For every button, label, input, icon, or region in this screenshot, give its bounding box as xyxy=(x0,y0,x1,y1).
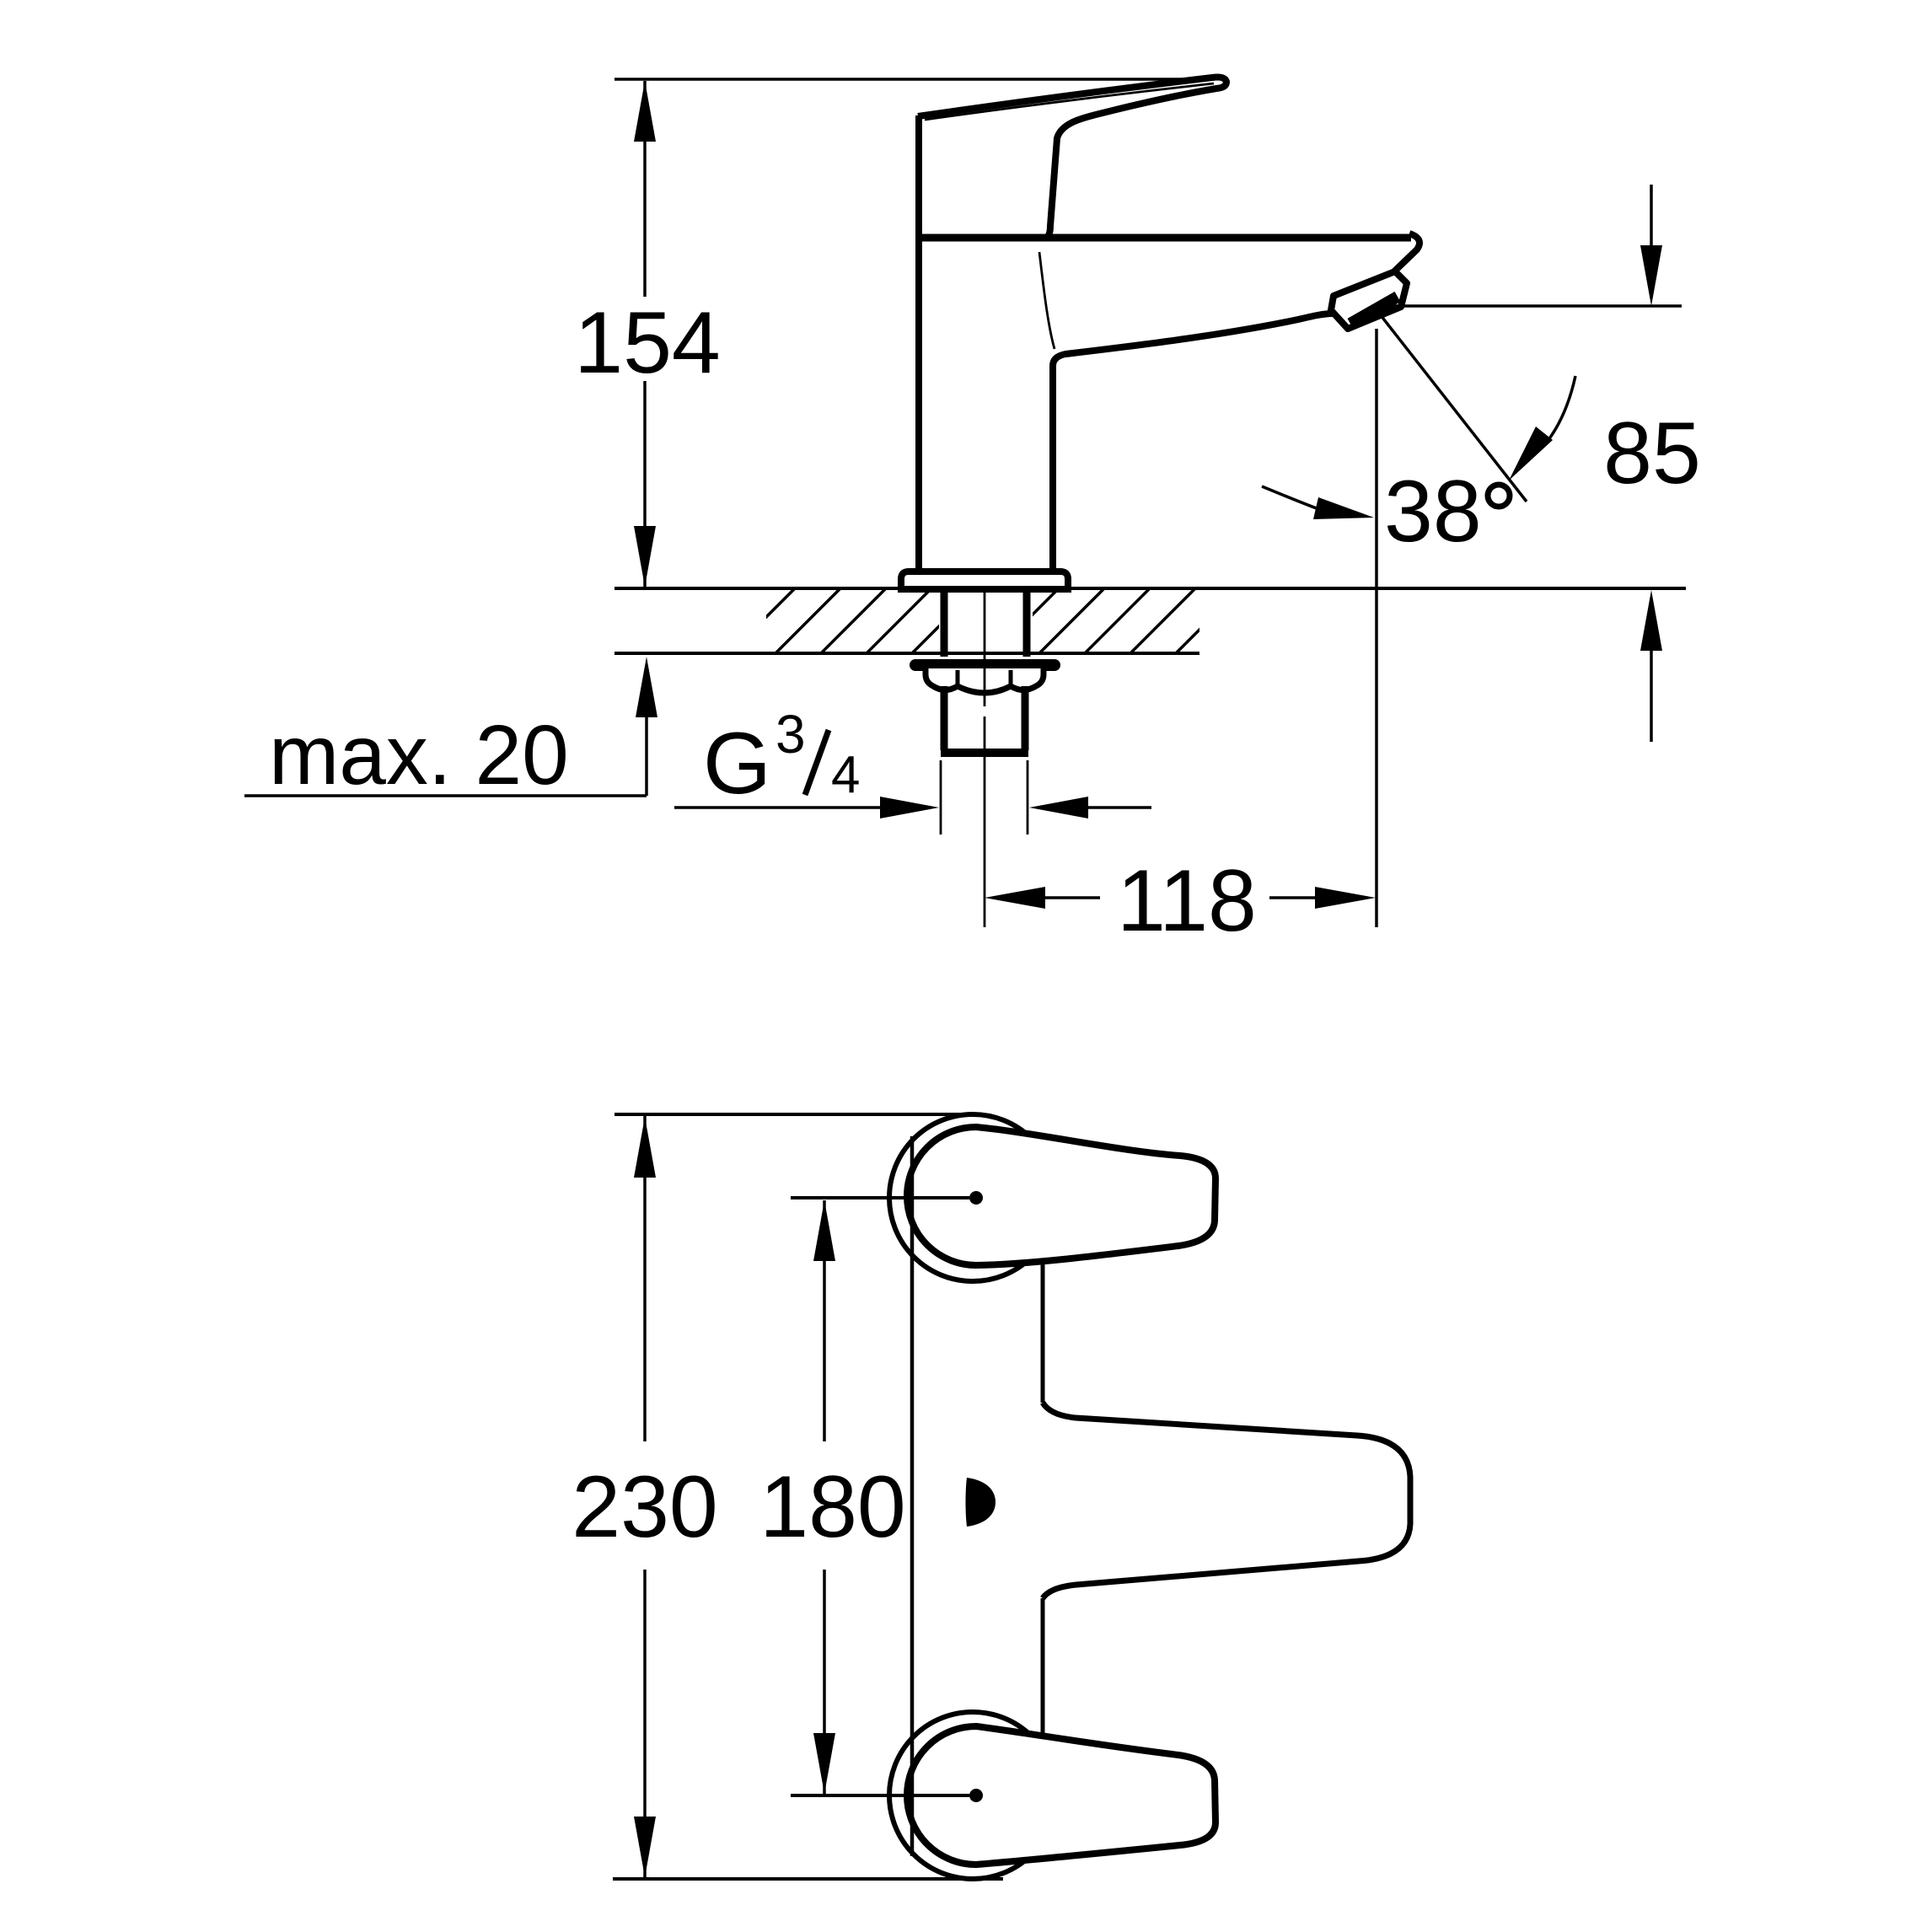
38 degree arrow at leader xyxy=(1545,376,1575,444)
faucet centerline xyxy=(984,590,986,706)
dimension 154 line xyxy=(643,81,647,297)
dim 85 bottom arrow xyxy=(1640,590,1662,651)
hatch left zone xyxy=(727,588,977,657)
arrow up 154 xyxy=(634,81,656,142)
deck bottom line xyxy=(614,652,1199,655)
dim max.20 xyxy=(645,712,648,796)
shank end xyxy=(941,749,1028,757)
spout outlet level line xyxy=(1384,304,1682,308)
svg-text:118: 118 xyxy=(1117,852,1257,950)
plan view: dark aerator mark xyxy=(966,1478,996,1527)
svg-text:max. 20: max. 20 xyxy=(269,708,569,802)
svg-text:4: 4 xyxy=(831,746,860,804)
plan view: escutcheon circle top xyxy=(889,1114,1056,1281)
dim 230 line xyxy=(643,1116,647,1441)
svg-text:38: 38 xyxy=(1384,463,1482,561)
38 degree leader line xyxy=(1377,311,1527,502)
plan view: top lever xyxy=(907,1127,1216,1265)
180 bottom ref line xyxy=(791,1794,969,1797)
deck top line xyxy=(614,587,1686,590)
38 degree arrow at centerline xyxy=(1262,486,1321,510)
aerator face band xyxy=(1350,297,1398,324)
230 top ref line xyxy=(614,1113,971,1116)
thread extension lines xyxy=(940,760,942,835)
spout beak corner xyxy=(1393,233,1419,272)
230 bottom ref line xyxy=(613,1877,1003,1881)
svg-text:85: 85 xyxy=(1603,405,1701,502)
plan view: body right line lower xyxy=(1041,1598,1045,1736)
cap line of body xyxy=(915,234,1411,242)
svg-text:230: 230 xyxy=(572,1458,718,1556)
washer below deck xyxy=(915,659,1055,671)
ref line top of handle (154 upper extent) xyxy=(614,78,1214,81)
shank bars through deck xyxy=(941,590,948,657)
hex nut xyxy=(926,668,1044,693)
base plate flange xyxy=(901,572,1068,589)
faucet body right edge and spout underside xyxy=(1053,314,1333,570)
degree symbol xyxy=(1488,485,1510,507)
dim 118 left arrow xyxy=(985,887,1045,909)
aerator block xyxy=(1331,271,1407,329)
threaded shank below nut xyxy=(941,686,948,750)
center dot bottom xyxy=(969,1789,983,1802)
plan view: body left line xyxy=(910,1136,915,1856)
plan view: escutcheon circle bottom xyxy=(889,1712,1056,1879)
dim 85 top arrow xyxy=(1650,185,1653,247)
handle inner thin line xyxy=(925,83,1214,120)
dim 118 right arrow xyxy=(1269,896,1317,899)
180 top ref line xyxy=(791,1196,969,1199)
dim G3/4 right arrow xyxy=(1029,797,1088,818)
spout centerline vertical xyxy=(1375,329,1378,927)
handle lever outline xyxy=(918,78,1226,238)
dim G3/4 left arrow xyxy=(674,806,882,809)
svg-text:G: G xyxy=(703,715,771,813)
svg-text:180: 180 xyxy=(759,1458,906,1556)
faucet body left edge xyxy=(915,115,922,570)
plan view: body right line upper xyxy=(1041,1264,1045,1403)
body-spout intersection curve xyxy=(1039,252,1055,349)
dim 180 line xyxy=(823,1200,826,1441)
hatch right zone xyxy=(990,588,1241,657)
plan view: bottom lever xyxy=(907,1726,1216,1865)
svg-text:3: 3 xyxy=(775,704,806,765)
center dot top xyxy=(969,1191,983,1205)
plan view: middle arm xyxy=(1043,1403,1410,1598)
arrow down 154 xyxy=(634,526,656,587)
svg-text:154: 154 xyxy=(574,294,721,392)
